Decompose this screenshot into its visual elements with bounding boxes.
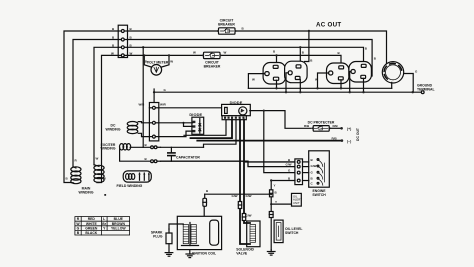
svg-text:DC OUT: DC OUT: [356, 127, 360, 141]
svg-text:WHITE: WHITE: [86, 222, 98, 226]
receptacle A2: [285, 61, 308, 82]
svg-text:YELLOW: YELLOW: [111, 226, 126, 230]
svg-text:R/B: R/B: [332, 136, 338, 140]
svg-text:W/R: W/R: [160, 103, 167, 107]
wire exciter upper to capacitor riser: [161, 146, 204, 148]
junction dot A2 G: [285, 91, 287, 93]
svg-text:B: B: [145, 157, 148, 161]
svg-text:VALVE: VALVE: [236, 251, 248, 255]
ignition coil box: [177, 216, 221, 249]
svg-text:B: B: [242, 27, 245, 31]
wire cluster a: [184, 120, 226, 136]
wire oil alert riser: [270, 181, 272, 250]
svg-text:G/W: G/W: [246, 213, 252, 217]
svg-text:DIODE: DIODE: [230, 100, 243, 105]
svg-text:(+): (+): [347, 127, 351, 131]
connector solenoid line A: [238, 202, 241, 209]
spark plug ground: [165, 244, 173, 257]
exciter winding coil: [120, 144, 131, 150]
wire main winding lead 3: [94, 47, 118, 164]
field winding coil: [126, 174, 135, 180]
wire bus w1 right: [236, 31, 387, 64]
wire CN2-2 to bridge: [159, 122, 193, 124]
svg-text:W: W: [103, 177, 106, 181]
wire bus w3: [128, 47, 364, 64]
wire twist lock to ground riser: [404, 74, 413, 93]
junction dot oil alert: [270, 203, 272, 205]
wire B2 bottom to G bus: [363, 78, 365, 92]
wire diode out to switch G: [250, 111, 311, 129]
connector solenoid line B: [242, 214, 245, 221]
exciter connector pair 2: [151, 160, 161, 163]
wire G bus: [154, 91, 421, 93]
dc out plus terminal: [340, 127, 343, 130]
wire B2 ground pin: [350, 72, 351, 93]
svg-text:R/B: R/B: [333, 124, 339, 128]
junction dot t2: [182, 122, 184, 124]
svg-text:BLUE: BLUE: [114, 217, 124, 221]
ignition secondary coil: [191, 225, 196, 244]
svg-text:Br: Br: [102, 222, 106, 226]
svg-text:W: W: [315, 78, 318, 82]
dc winding leads: [138, 122, 149, 123]
junction dot G branch: [263, 110, 265, 112]
wire t2 branch: [184, 123, 193, 127]
wire cluster d: [204, 120, 237, 148]
junction dot voltmeter right: [168, 54, 170, 56]
wire switch B branch: [243, 161, 295, 163]
wire cluster b bold: [191, 120, 233, 138]
junction dot A2 bottom G: [299, 91, 301, 93]
terminal CN1-1: [118, 30, 127, 33]
svg-text:GREEN: GREEN: [85, 226, 98, 230]
wire twist lock bottom: [391, 82, 393, 88]
svg-text:Y: Y: [274, 184, 276, 188]
svg-text:W/R: W/R: [139, 103, 146, 107]
wire A2 ground pin: [286, 73, 288, 92]
connector on riser: [270, 190, 273, 197]
svg-text:CAPACITATOR: CAPACITATOR: [176, 156, 200, 160]
junction dot twist ground: [412, 91, 414, 93]
wire A1 feed: [276, 55, 278, 64]
junction dot A2 feed: [299, 46, 301, 48]
diode bridge pins: [193, 121, 196, 133]
svg-text:B: B: [338, 51, 341, 55]
wire bus w4: [128, 54, 204, 56]
wire B1 bottom to W bus: [340, 80, 342, 88]
svg-text:WINDING: WINDING: [105, 127, 120, 131]
wire ignition drop 2: [204, 206, 210, 221]
diode bridge D2: [192, 117, 204, 134]
svg-text:W: W: [170, 59, 173, 63]
svg-text:W: W: [193, 51, 196, 55]
ground terminal lug: [421, 91, 424, 94]
terminal CN1-4: [118, 54, 127, 57]
ignition output block: [210, 220, 219, 245]
junction dot B1 W: [340, 87, 342, 89]
wire bus w2: [128, 40, 373, 77]
exciter winding lower lead: [120, 147, 151, 161]
wire A2 feed: [299, 47, 301, 64]
svg-text:W: W: [224, 51, 227, 55]
dc out minus terminal: [341, 139, 344, 142]
svg-text:G: G: [415, 70, 418, 74]
svg-text:WINDING: WINDING: [100, 147, 115, 151]
svg-text:G: G: [164, 88, 167, 92]
svg-text:W: W: [130, 51, 133, 55]
svg-text:W: W: [111, 51, 114, 55]
terminal CN2-3: [149, 135, 158, 138]
main winding coil 2: [94, 165, 104, 183]
terminal strip CN2: [149, 103, 158, 141]
stray terminal dot: [104, 194, 106, 196]
spark plug: [166, 228, 172, 244]
oil alert unit: [292, 193, 302, 206]
wire W bus: [248, 87, 391, 89]
svg-text:(−): (−): [347, 139, 351, 143]
wire B1 ground pin: [318, 73, 329, 88]
svg-text:G/W: G/W: [246, 194, 252, 198]
junction dot B1 hole W: [316, 87, 318, 89]
wire main winding lead 2: [73, 40, 118, 167]
receptacle A1: [263, 63, 286, 85]
receptacle B1: [327, 63, 349, 84]
svg-text:G/W: G/W: [286, 163, 292, 167]
volt meter lead right: [161, 55, 169, 67]
dc winding coil: [127, 122, 138, 134]
oil level switch: [274, 220, 283, 243]
svg-text:B: B: [374, 57, 377, 61]
wire ignition drop: [204, 194, 206, 198]
svg-text:B: B: [275, 191, 278, 195]
svg-text:G/W: G/W: [311, 164, 317, 168]
svg-text:BREAKER: BREAKER: [218, 22, 235, 26]
svg-text:BREAKER: BREAKER: [204, 64, 221, 68]
wire G tap to strip2: [153, 92, 155, 102]
junction dot y: [270, 193, 272, 195]
wire main winding lead 4: [97, 55, 118, 182]
switch connector strip: [295, 159, 309, 185]
volt meter leads: [144, 55, 152, 67]
wire protector to plus: [330, 127, 341, 129]
wire bus w1: [128, 30, 219, 32]
wire w3 tap vertical: [142, 47, 144, 147]
wire diode pin to solenoid line B: [244, 120, 250, 223]
wire main winding lead 1: [64, 31, 118, 183]
engine switch box: [309, 151, 330, 187]
svg-text:L: L: [103, 217, 105, 221]
ignition primary coil: [183, 225, 188, 244]
dc winding lead 2: [138, 133, 149, 136]
junction dot B2 hole G: [349, 91, 351, 93]
svg-text:R/B: R/B: [304, 124, 310, 128]
wire cluster c bold to DC out: [197, 140, 342, 142]
wire CN2-1 to diode assy: [159, 107, 222, 109]
svg-text:WINDING: WINDING: [78, 190, 93, 194]
svg-text:TERMINAL: TERMINAL: [417, 87, 435, 91]
main winding coil 1: [71, 167, 81, 184]
svg-text:W: W: [96, 157, 99, 161]
svg-text:DIODE: DIODE: [189, 112, 202, 117]
svg-text:BLACK: BLACK: [85, 231, 97, 235]
junction dot switch b: [270, 179, 272, 181]
wire A1 ground pin: [248, 74, 264, 89]
wire switch B bottom: [271, 180, 295, 182]
svg-text:Y: Y: [275, 200, 277, 204]
twist lock receptacle: [382, 62, 403, 83]
svg-text:B: B: [310, 59, 313, 63]
field winding frame: [123, 171, 151, 182]
capacitor C1: [168, 147, 175, 161]
svg-text:G/W: G/W: [232, 194, 238, 198]
svg-text:UNIT: UNIT: [293, 201, 300, 205]
svg-text:PLUG: PLUG: [153, 234, 163, 238]
ignition ground: [186, 250, 194, 258]
ignition core: [182, 223, 199, 246]
terminal CN1-3: [118, 46, 127, 49]
exciter connector pair 1: [151, 146, 161, 149]
solenoid coil: [250, 225, 256, 243]
junction dot A1 feed: [275, 54, 277, 56]
svg-text:AC OUT: AC OUT: [316, 22, 342, 29]
wire exciter lower to switch: [161, 161, 296, 166]
svg-text:B: B: [145, 143, 148, 147]
ground oil: [267, 250, 275, 255]
wire diode pin to solenoid line A: [240, 120, 250, 244]
svg-text:IGNITION COIL: IGNITION COIL: [192, 252, 216, 256]
ground tap stub: [153, 89, 155, 93]
terminal CN1-2: [118, 38, 127, 41]
diode assy D1: [222, 104, 251, 115]
circuit breaker CB1: [217, 28, 237, 34]
terminal CN2-1: [149, 106, 158, 109]
svg-text:B: B: [365, 47, 368, 51]
svg-text:BROWN: BROWN: [112, 222, 126, 226]
svg-text:G: G: [77, 226, 80, 230]
svg-text:SWITCH: SWITCH: [312, 193, 326, 197]
svg-text:DC PROTECTER: DC PROTECTER: [308, 120, 335, 124]
svg-text:B: B: [66, 177, 69, 181]
junction dot B2 bottom G: [362, 91, 364, 93]
receptacle B2: [349, 62, 372, 83]
junction dot w3 tap: [142, 46, 144, 48]
wire G branch to switch: [264, 111, 295, 173]
svg-text:B: B: [273, 50, 276, 54]
junction dot voltmeter left: [143, 54, 145, 56]
wire to oil alert unit: [271, 203, 291, 205]
svg-text:B: B: [302, 51, 305, 55]
connector ignition: [203, 198, 207, 206]
svg-text:SWITCH: SWITCH: [285, 231, 299, 235]
svg-text:FIELD WINDING: FIELD WINDING: [117, 184, 143, 188]
exciter winding leads: [130, 146, 150, 148]
diode assy pin row: [222, 116, 246, 120]
wire spark plug to coil: [169, 224, 183, 228]
svg-text:W: W: [252, 78, 255, 82]
volt meter V1: [151, 65, 162, 76]
wire bus w4 right: [220, 55, 341, 64]
wire ignition feed: [205, 193, 272, 195]
field winding brushes: [139, 173, 150, 180]
wire CN2-3 to bridge: [159, 131, 193, 137]
svg-text:VOLT METER: VOLT METER: [147, 61, 169, 65]
connector pair on riser low: [269, 212, 273, 218]
legend table: [75, 217, 130, 235]
label oil alert: [293, 194, 302, 205]
terminal CN2-2: [149, 121, 158, 124]
svg-text:R: R: [75, 159, 78, 163]
svg-text:B: B: [206, 189, 209, 193]
wire A1 bottom to W bus: [276, 80, 278, 88]
circuit breaker CB2: [202, 52, 222, 58]
dc protector CB3: [312, 126, 331, 132]
svg-text:RED: RED: [88, 217, 96, 221]
terminal strip CN1: [118, 25, 127, 57]
junction dot A1 W: [275, 87, 277, 89]
wire A2 bottom to G bus: [299, 80, 301, 93]
solenoid valve box: [247, 221, 260, 247]
wire A2 aux feed: [305, 30, 311, 62]
